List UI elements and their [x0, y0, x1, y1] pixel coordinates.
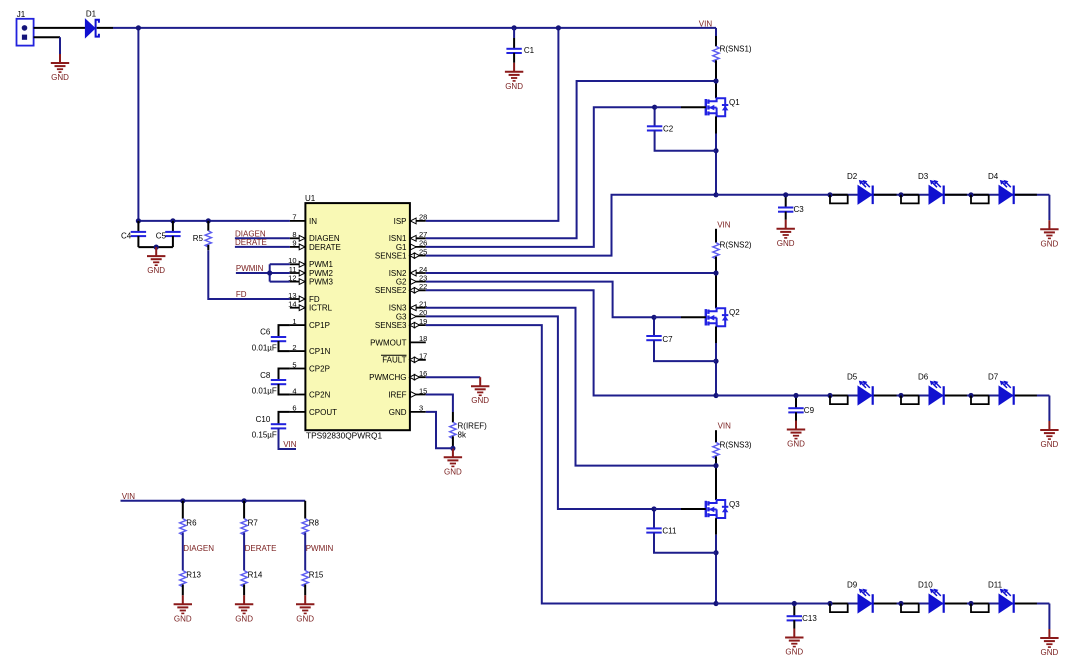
svg-text:GND: GND — [471, 396, 489, 405]
wire VIN top rail — [138, 27, 716, 29]
svg-text:VIN: VIN — [283, 440, 297, 449]
svg-text:J1: J1 — [17, 10, 26, 19]
pin 2 CP1N — [290, 343, 331, 356]
svg-text:12: 12 — [288, 273, 296, 282]
pin 24 ISN2 — [389, 265, 428, 278]
pin 21 ISN3 — [389, 300, 428, 313]
capacitor C9 — [788, 406, 814, 415]
node R5 tap — [206, 218, 211, 223]
wire ISN1 net — [426, 81, 716, 238]
node C3 tap — [783, 192, 788, 197]
op-amp U1 TPS92830QPWRQ1 body — [305, 194, 410, 440]
node D7 anode tap — [968, 393, 973, 398]
resistor R8 — [302, 519, 308, 535]
svg-text:FD: FD — [309, 295, 320, 304]
pin 7 IN — [290, 213, 317, 226]
pin 11 PWM2 — [289, 265, 334, 278]
transistor Q2 — [706, 308, 740, 326]
svg-text:DERATE: DERATE — [245, 544, 277, 553]
pin 9 DERATE — [290, 239, 341, 252]
pin 16 PWMCHG — [369, 369, 427, 382]
svg-text:C6: C6 — [260, 328, 271, 337]
svg-text:1: 1 — [292, 317, 296, 326]
svg-text:DERATE: DERATE — [235, 238, 267, 247]
svg-text:GND: GND — [785, 648, 803, 657]
diode D1 — [85, 10, 99, 38]
wire R(SNS1) to Q1 drain — [715, 60, 717, 98]
wire R(SNS2) to Q2 drain — [715, 257, 717, 309]
wire gate node to C7 — [653, 317, 655, 336]
ground (row3) — [1040, 629, 1058, 657]
pin 15 IREF — [388, 386, 427, 399]
svg-text:PWMIN: PWMIN — [306, 544, 334, 553]
resistor R13 — [180, 571, 186, 587]
pin 3 GND — [389, 404, 426, 417]
ground (row2) — [1040, 421, 1058, 449]
transistor Q1 — [706, 98, 740, 116]
node D6 anode tap — [898, 393, 903, 398]
svg-text:GND: GND — [51, 73, 69, 82]
wire VIN to U1 pin 7 IN — [138, 220, 290, 222]
LED D6 — [918, 373, 944, 405]
LED D3 — [918, 172, 944, 204]
node IREF gnd — [450, 446, 455, 451]
svg-text:PWMCHG: PWMCHG — [369, 373, 406, 382]
wire LED string row (D2-D4) — [716, 194, 1049, 196]
svg-text:PWM3: PWM3 — [309, 278, 334, 287]
capacitor C10 — [256, 415, 287, 429]
svg-text:17: 17 — [419, 352, 427, 361]
wire LED string row (D5-D7) — [716, 395, 1049, 397]
LED D5 — [847, 373, 873, 405]
wire CPOUT loop — [279, 412, 290, 424]
svg-text:CP2N: CP2N — [309, 390, 331, 399]
node ISP tap on VIN rail — [556, 25, 561, 30]
node D11 anode tap — [968, 601, 973, 606]
svg-text:DERATE: DERATE — [309, 243, 341, 252]
wire IREF to R(IREF) — [426, 395, 453, 413]
svg-text:D3: D3 — [918, 172, 929, 181]
wire VIN to R(SNS2) — [715, 229, 717, 243]
svg-text:SENSE1: SENSE1 — [375, 252, 407, 261]
svg-text:GND: GND — [787, 440, 805, 449]
node D5 anode tap — [827, 393, 832, 398]
wire C2 bottom — [655, 131, 716, 151]
capacitor C9 tap — [795, 396, 797, 409]
wire R7 top stub — [243, 501, 245, 519]
svg-text:0.01µF: 0.01µF — [252, 386, 277, 395]
node C13 tap — [792, 601, 797, 606]
svg-text:GND: GND — [444, 467, 462, 476]
wire DERATE mid net — [243, 533, 245, 571]
wire R14 to ground — [243, 585, 245, 596]
svg-text:C10: C10 — [256, 415, 271, 424]
wire PWMIN to pins 10/11/12 — [236, 272, 290, 274]
svg-text:GND: GND — [1041, 648, 1059, 657]
ground (C4/C5) — [147, 247, 165, 275]
wire SENSE2 net — [426, 290, 716, 395]
LED D7 — [988, 373, 1014, 405]
pin 6 CPOUT — [290, 404, 337, 417]
wire J1 pin1 to D1 anode — [34, 27, 86, 29]
wire J1 pin2 to ground — [34, 36, 60, 38]
svg-text:SENSE3: SENSE3 — [375, 321, 407, 330]
wire C5 top stub — [172, 221, 174, 232]
node Q1 gate — [652, 105, 657, 110]
svg-text:GND: GND — [174, 614, 192, 623]
node row2 output — [713, 393, 718, 398]
jumper link D5 — [830, 396, 848, 405]
svg-text:R15: R15 — [309, 571, 324, 580]
wire ISN3 net — [426, 308, 716, 466]
svg-text:R13: R13 — [186, 571, 201, 580]
pin 17 FAULT — [381, 352, 427, 365]
svg-text:D4: D4 — [988, 172, 999, 181]
svg-text:9: 9 — [292, 239, 296, 248]
svg-text:7: 7 — [292, 213, 296, 222]
resistor R7 — [241, 519, 247, 535]
wire R15 to ground — [304, 585, 306, 596]
pin 4 CP2N — [290, 386, 331, 399]
pin 27 ISN1 — [389, 230, 428, 243]
svg-text:13: 13 — [288, 291, 296, 300]
svg-text:0.15µF: 0.15µF — [252, 430, 277, 439]
wire ISP net (pin 28 to VIN rail) — [426, 28, 559, 221]
wire C7 bottom — [654, 340, 716, 361]
resistor R15 — [302, 571, 308, 587]
jumper link D4 — [971, 195, 989, 204]
node row1 output — [713, 192, 718, 197]
svg-text:IN: IN — [309, 217, 317, 226]
resistor R14 — [241, 571, 247, 587]
wire SENSE3 net — [426, 325, 716, 603]
ground (R14) — [235, 595, 253, 623]
svg-text:4: 4 — [292, 386, 296, 395]
wire LED string row (D9-D11) — [716, 603, 1049, 605]
svg-text:U1: U1 — [305, 194, 316, 203]
wire gate stub Q3 — [654, 508, 681, 510]
pin 12 PWM3 — [288, 273, 333, 286]
capacitor C5 — [156, 231, 181, 240]
wire C1 top stub — [513, 28, 515, 38]
pin 1 CP1P — [290, 317, 330, 330]
svg-text:D2: D2 — [847, 172, 858, 181]
LED D4 — [988, 172, 1014, 204]
ground (C3) — [777, 220, 795, 248]
pin 8 DIAGEN — [290, 230, 340, 243]
wire R5 to FD net — [207, 245, 209, 250]
svg-text:G2: G2 — [396, 278, 407, 287]
svg-text:R8: R8 — [309, 519, 320, 528]
svg-text:SENSE2: SENSE2 — [375, 286, 407, 295]
wire node A down to IN row — [137, 28, 139, 221]
node C4/C5 gnd — [154, 245, 159, 250]
svg-text:D1: D1 — [86, 10, 97, 19]
wire C10 to VIN stub — [279, 428, 297, 449]
node R6 tap — [180, 498, 185, 503]
wire CP2P/CP2N loop — [279, 369, 290, 381]
svg-text:C7: C7 — [662, 335, 673, 344]
svg-text:C2: C2 — [663, 125, 674, 134]
svg-text:C9: C9 — [804, 406, 815, 415]
svg-text:6: 6 — [292, 404, 296, 413]
pin 25 SENSE1 — [375, 247, 427, 260]
wire R13 to ground — [182, 585, 184, 596]
svg-text:VIN: VIN — [718, 421, 732, 430]
svg-text:VIN: VIN — [717, 220, 731, 229]
wire G2 net — [426, 282, 654, 318]
node row3 output — [713, 601, 718, 606]
svg-text:Q3: Q3 — [729, 500, 740, 509]
node Q3 gate — [651, 506, 656, 511]
svg-text:C4: C4 — [121, 231, 132, 240]
wire SENSE1 net — [426, 195, 716, 256]
svg-text:PWM1: PWM1 — [309, 260, 334, 269]
wire gate stub Q2 — [654, 316, 681, 318]
jumper link D10 — [901, 604, 919, 613]
jumper link D3 — [901, 195, 919, 204]
capacitor C3 — [778, 205, 804, 214]
jumper link D6 — [901, 396, 919, 405]
svg-text:C1: C1 — [524, 46, 535, 55]
wire DERATE to pin 9 — [235, 246, 290, 248]
node D10 anode tap — [898, 601, 903, 606]
ground (row1) — [1040, 220, 1058, 248]
svg-text:G3: G3 — [396, 312, 407, 321]
node Q2 gate — [651, 315, 656, 320]
svg-text:GND: GND — [235, 614, 253, 623]
LED D10 — [918, 581, 944, 613]
pin 23 G2 — [396, 273, 428, 286]
capacitor C11 — [646, 527, 677, 536]
ground (C13) — [785, 629, 803, 657]
jumper link D11 — [971, 604, 989, 613]
capacitor C2 — [647, 125, 674, 134]
svg-text:GND: GND — [777, 239, 795, 248]
svg-text:Q1: Q1 — [729, 98, 740, 107]
pin 20 G3 — [396, 308, 428, 321]
transistor Q3 — [706, 500, 740, 518]
capacitor C7 — [646, 335, 673, 344]
pin 22 SENSE2 — [375, 282, 427, 295]
capacitor C1 — [506, 46, 534, 55]
svg-text:TPS92830QPWRQ1: TPS92830QPWRQ1 — [306, 430, 382, 440]
wire PWMCHG to ground — [426, 376, 480, 378]
svg-text:R(IREF): R(IREF) — [458, 422, 488, 431]
node C11 join — [713, 550, 718, 555]
LED D11 — [988, 581, 1014, 613]
wire string end to ground — [1048, 604, 1050, 630]
capacitor C8 — [260, 371, 286, 384]
pin 13 FD — [288, 291, 320, 304]
capacitor C3 tap — [785, 195, 787, 208]
svg-text:14: 14 — [288, 300, 296, 309]
node A (VIN rail / D1) — [136, 25, 141, 30]
svg-text:CP1P: CP1P — [309, 321, 330, 330]
svg-text:D9: D9 — [847, 581, 858, 590]
wire VIN to R(SNS1) — [715, 28, 717, 36]
resistor R6 — [180, 519, 186, 535]
resistor R(IREF) — [450, 422, 456, 438]
wire R5 top stub — [207, 221, 209, 231]
svg-text:Q2: Q2 — [729, 308, 740, 317]
svg-text:CP2P: CP2P — [309, 364, 330, 373]
svg-text:C11: C11 — [662, 527, 677, 536]
wire Q1 source down — [715, 116, 717, 133]
node R7 tap — [242, 498, 247, 503]
svg-text:CPOUT: CPOUT — [309, 408, 337, 417]
wire PWMIN mid net — [304, 533, 306, 571]
wire C4 top stub — [137, 221, 139, 232]
node C9 tap — [793, 393, 798, 398]
resistor R5 — [205, 231, 211, 247]
svg-text:D5: D5 — [847, 373, 858, 382]
svg-text:8k: 8k — [458, 431, 467, 440]
wire DIAGEN to pin 8 — [235, 237, 290, 239]
wire DIAGEN mid net — [182, 533, 184, 571]
capacitor C6 — [260, 328, 286, 342]
node C2 join — [713, 148, 718, 153]
LED D9 — [847, 581, 873, 613]
svg-text:2: 2 — [292, 343, 296, 352]
svg-text:GND: GND — [1041, 239, 1059, 248]
ground (R15) — [296, 595, 314, 623]
connector J1 — [17, 10, 34, 46]
capacitor C13 — [787, 614, 818, 623]
svg-text:R14: R14 — [248, 571, 263, 580]
wire R6 top stub — [182, 501, 184, 519]
ground (C1) — [505, 63, 523, 91]
svg-text:5: 5 — [292, 360, 296, 369]
svg-text:ISN3: ISN3 — [389, 304, 407, 313]
jumper link D9 — [830, 604, 848, 613]
svg-text:R(SNS1): R(SNS1) — [720, 45, 752, 54]
node C7 join — [713, 359, 718, 364]
resistor R(SNS1) — [713, 46, 719, 62]
pin 14 ICTRL — [288, 300, 333, 313]
svg-text:GND: GND — [1041, 440, 1059, 449]
svg-text:C8: C8 — [260, 371, 271, 380]
svg-text:D6: D6 — [918, 373, 929, 382]
svg-text:GND: GND — [389, 408, 407, 417]
svg-text:FAULT: FAULT — [382, 356, 406, 365]
wire gate stub Q1 — [655, 106, 681, 108]
ground (R(IREF)) — [444, 448, 462, 476]
wire VIN to R(SNS3) — [715, 430, 717, 442]
ground (J1) — [51, 54, 69, 82]
svg-text:3: 3 — [419, 404, 423, 413]
svg-text:PWMIN: PWMIN — [236, 264, 264, 273]
wire G3 net — [426, 316, 654, 509]
jumper link D7 — [971, 396, 989, 405]
svg-text:GND: GND — [296, 614, 314, 623]
node B (IN row / C4) — [136, 218, 141, 223]
wire string end to ground — [1048, 396, 1050, 422]
node D4 anode tap — [968, 192, 973, 197]
wire ISN2 net — [426, 272, 716, 274]
wire VIN bias rail — [121, 500, 306, 502]
pin 5 CP2P — [290, 360, 330, 373]
svg-text:PWMOUT: PWMOUT — [370, 338, 407, 347]
svg-text:R(SNS3): R(SNS3) — [720, 440, 752, 449]
capacitor C13 tap — [793, 604, 795, 617]
svg-text:CP1N: CP1N — [309, 347, 331, 356]
wire CP1P/CP1N loop — [279, 325, 290, 337]
svg-text:10: 10 — [288, 256, 296, 265]
wire GND pin 3 to ground — [426, 412, 453, 448]
node D2 anode tap — [827, 192, 832, 197]
svg-text:R6: R6 — [186, 519, 197, 528]
svg-text:R7: R7 — [248, 519, 259, 528]
wire R(IREF) to ground — [452, 436, 454, 448]
svg-text:C3: C3 — [794, 205, 805, 214]
pin 19 SENSE3 — [375, 317, 427, 330]
ground (C9) — [787, 421, 805, 449]
svg-text:DIAGEN: DIAGEN — [183, 544, 214, 553]
svg-text:G1: G1 — [396, 243, 407, 252]
wire G1 net — [426, 107, 655, 247]
node C1 tap — [511, 25, 516, 30]
svg-text:GND: GND — [505, 82, 523, 91]
wire Q2 source down — [715, 327, 717, 344]
svg-text:R(SNS2): R(SNS2) — [720, 241, 752, 250]
svg-text:IREF: IREF — [388, 390, 406, 399]
svg-text:R5: R5 — [193, 234, 204, 243]
svg-text:D10: D10 — [918, 581, 933, 590]
svg-text:D7: D7 — [988, 373, 999, 382]
capacitor C4 — [121, 231, 146, 240]
node D3 anode tap — [898, 192, 903, 197]
ground (R13) — [174, 595, 192, 623]
node ISN2 — [713, 270, 718, 275]
node ISN1 — [713, 78, 718, 83]
svg-text:VIN: VIN — [699, 19, 713, 28]
wire R8 top stub — [304, 501, 306, 519]
resistor R(SNS3) — [713, 442, 719, 458]
wire gate node to C2 — [654, 107, 656, 126]
jumper link D2 — [830, 195, 848, 204]
node ISN3 — [713, 463, 718, 468]
pin 10 PWM1 — [288, 256, 333, 269]
svg-text:0.01µF: 0.01µF — [252, 343, 277, 352]
svg-text:D11: D11 — [988, 581, 1003, 590]
svg-text:FD: FD — [236, 290, 247, 299]
svg-text:GND: GND — [147, 266, 165, 275]
pin 26 G1 — [396, 239, 428, 252]
wire C11 bottom — [654, 533, 716, 553]
wire Q3 source down — [715, 518, 717, 535]
svg-text:ICTRL: ICTRL — [309, 304, 333, 313]
node C5 tap — [170, 218, 175, 223]
wire D1 cathode to node A — [97, 27, 113, 29]
ground (PWMCHG) — [471, 377, 489, 405]
wire C4/C5 bottom rail — [137, 236, 139, 247]
LED D2 — [847, 172, 873, 204]
wire string end to ground — [1048, 195, 1050, 221]
wire R(SNS3) to Q3 drain — [715, 456, 717, 500]
pin 18 PWMOUT — [370, 334, 427, 347]
svg-text:VIN: VIN — [122, 492, 136, 501]
svg-text:ISP: ISP — [394, 217, 407, 226]
wire C1 bottom stub — [513, 53, 515, 63]
node PWMIN branch — [267, 270, 272, 275]
node D9 anode tap — [827, 601, 832, 606]
svg-text:18: 18 — [419, 334, 427, 343]
resistor R(SNS2) — [713, 243, 719, 259]
wire gate node to C11 — [653, 509, 655, 528]
pin 28 ISP — [394, 213, 428, 226]
svg-text:C13: C13 — [802, 614, 817, 623]
